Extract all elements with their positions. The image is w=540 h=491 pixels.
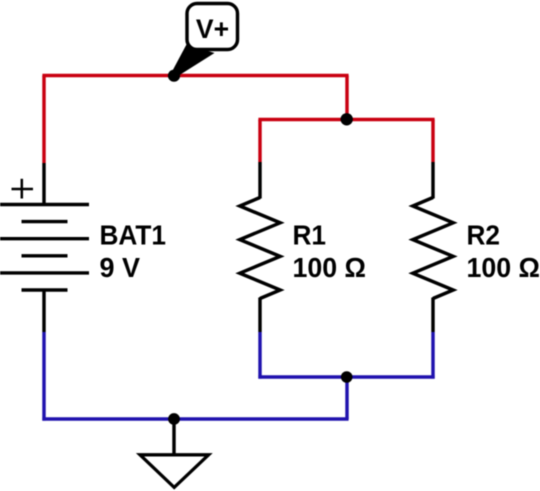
wire: horizontal blue joining R1 and R2 bottoms <box>258 375 434 378</box>
svg-text:100 Ω: 100 Ω <box>467 252 540 283</box>
wire: left vertical red from top corner down <box>42 76 45 164</box>
svg-text:9 V: 9 V <box>100 252 141 283</box>
resistor R2 zigzag <box>413 198 453 299</box>
svg-text:BAT1: BAT1 <box>100 220 167 251</box>
wire: R1 top red vertical <box>258 120 261 163</box>
svg-text:R1: R1 <box>293 220 327 251</box>
svg-text:V+: V+ <box>196 14 229 44</box>
wire: left vertical blue down to ground net <box>42 332 45 421</box>
wire: R1 top black vertical <box>258 162 261 199</box>
V+ flag box <box>187 4 238 50</box>
wire: bottom horizontal blue (ground net) <box>42 417 348 420</box>
junction node: top red net junction at x=347 <box>341 113 353 125</box>
junction node: bottom blue net junction at x=347 <box>341 371 353 383</box>
battery BAT1 symbol plates <box>0 205 89 291</box>
wire: black below battery negative <box>42 290 45 332</box>
ground symbol triangle <box>140 455 209 488</box>
wire: R1 bottom blue vertical <box>258 332 261 379</box>
wire: top horizontal red (V+ net) <box>42 74 348 77</box>
wire: middle vertical blue from parallel pair down to ground net <box>345 377 348 419</box>
wire: R2 bottom blue vertical <box>431 332 434 379</box>
battery BAT1 plus sign <box>12 179 34 199</box>
wire: R2 top red vertical <box>431 120 434 163</box>
wire: second horizontal red joining R1 and R2 tops <box>258 118 434 121</box>
wire: middle vertical red from top net down <box>345 76 348 122</box>
wire: R2 bottom black vertical <box>431 298 434 333</box>
ground symbol stem <box>172 419 175 457</box>
svg-text:R2: R2 <box>467 220 501 251</box>
wire: left vertical black into battery positive <box>42 163 45 206</box>
junction node: ground tap on bottom net <box>168 413 180 425</box>
junction node: V+ probe dot on top net <box>168 70 180 82</box>
wire: R2 top black vertical <box>431 162 434 199</box>
V+ flag tail <box>171 44 215 76</box>
svg-text:100 Ω: 100 Ω <box>293 252 367 283</box>
resistor R1 zigzag <box>240 198 280 299</box>
wire: R1 bottom black vertical <box>258 298 261 333</box>
